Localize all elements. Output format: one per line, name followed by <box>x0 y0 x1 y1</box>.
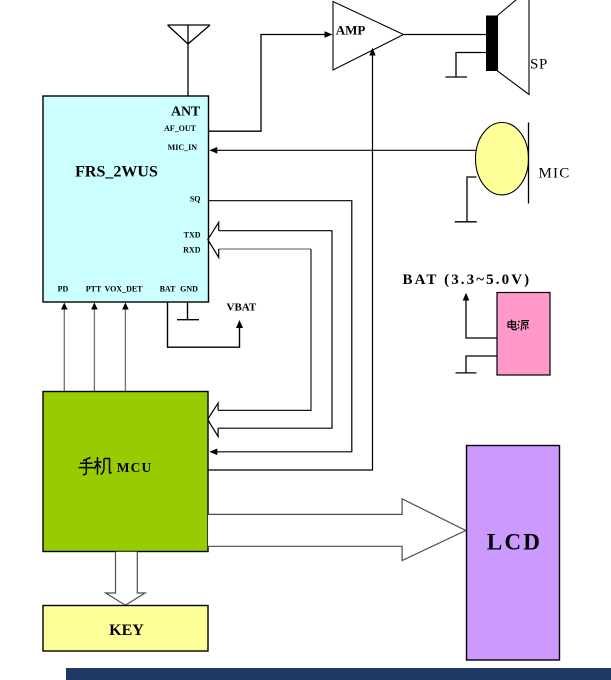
arrowhead SQ into MCU <box>209 449 217 456</box>
wire PTT from MCU <box>93 307 95 392</box>
wire RXD bus (grey segment) <box>219 248 311 250</box>
antenna <box>168 25 211 44</box>
svg-text:KEY: KEY <box>109 622 144 639</box>
block arrow MCU to LCD <box>208 499 466 561</box>
LCD box <box>467 446 560 661</box>
arrowhead into AMP bottom <box>369 48 375 56</box>
svg-text:LCD: LCD <box>487 530 542 555</box>
源 glyph <box>518 321 529 331</box>
电 glyph <box>508 320 516 330</box>
wire PD from MCU <box>63 307 65 392</box>
wire RXD bus <box>218 249 311 410</box>
wire AF_OUT to AMP input <box>209 35 326 132</box>
wire power supply to BAT rail <box>466 300 497 338</box>
wire AMP output to speaker <box>404 34 487 36</box>
svg-text:SQ: SQ <box>190 194 201 203</box>
ground (GND pin) <box>177 302 199 320</box>
ground (microphone) <box>455 177 477 222</box>
MCU box (手机 MCU) <box>43 392 208 552</box>
arrowhead to VBAT <box>236 320 243 328</box>
svg-text:FRS_2WUS: FRS_2WUS <box>75 163 158 180</box>
arrowhead into MIC_IN <box>209 147 217 154</box>
bottom navy bar <box>66 668 611 680</box>
svg-text:AF_OUT: AF_OUT <box>164 124 197 133</box>
svg-text:MIC: MIC <box>539 165 571 181</box>
wire MIC to MIC_IN <box>216 149 476 151</box>
KEY box <box>43 606 208 652</box>
svg-text:GND: GND <box>180 285 198 294</box>
block arrow MCU to KEY <box>106 552 145 605</box>
svg-text:BAT (3.3~5.0V): BAT (3.3~5.0V) <box>403 272 532 288</box>
svg-text:VOX_DET: VOX_DET <box>104 285 143 294</box>
ground (power supply) <box>456 356 498 373</box>
手 glyph <box>79 458 95 475</box>
svg-text:ANT: ANT <box>171 104 201 119</box>
arrowhead PD <box>61 303 68 310</box>
label 手机 MCU <box>79 457 112 475</box>
svg-text:MCU: MCU <box>117 460 153 475</box>
svg-text:SP: SP <box>530 56 548 72</box>
op-amp AMP U2 <box>333 2 404 71</box>
hollow arrowhead at FRS TXD/RXD pins <box>208 222 219 257</box>
svg-text:VBAT: VBAT <box>227 302 257 314</box>
arrowhead VOX_DET <box>122 303 129 310</box>
arrowhead PTT <box>91 303 98 310</box>
svg-text:TXD: TXD <box>184 230 201 239</box>
arrowhead into AMP input <box>325 31 333 38</box>
label 电源 <box>508 320 529 331</box>
wire BAT pin to VBAT <box>168 302 240 347</box>
wire MCU to AMP control <box>208 55 373 470</box>
机 glyph <box>94 457 112 475</box>
svg-text:PD: PD <box>58 285 69 294</box>
microphone MIC <box>476 123 529 204</box>
svg-text:MIC_IN: MIC_IN <box>168 143 198 152</box>
wire SQ to MCU <box>209 201 352 452</box>
power supply box 电源 <box>497 293 550 376</box>
speaker SP <box>486 0 529 95</box>
wire TXD bus <box>218 231 332 429</box>
hollow arrowhead at MCU serial port <box>208 403 219 437</box>
svg-text:PTT: PTT <box>86 285 102 294</box>
svg-text:BAT: BAT <box>160 285 177 294</box>
arrowhead up to BAT <box>463 293 470 301</box>
ground (speaker) <box>446 53 487 78</box>
wire antenna to ANT pin <box>187 44 189 96</box>
svg-text:RXD: RXD <box>183 246 201 255</box>
FRS_2WUS module U1 <box>43 96 209 302</box>
wire VOX_DET from MCU <box>124 307 126 392</box>
svg-text:AMP: AMP <box>336 22 366 37</box>
